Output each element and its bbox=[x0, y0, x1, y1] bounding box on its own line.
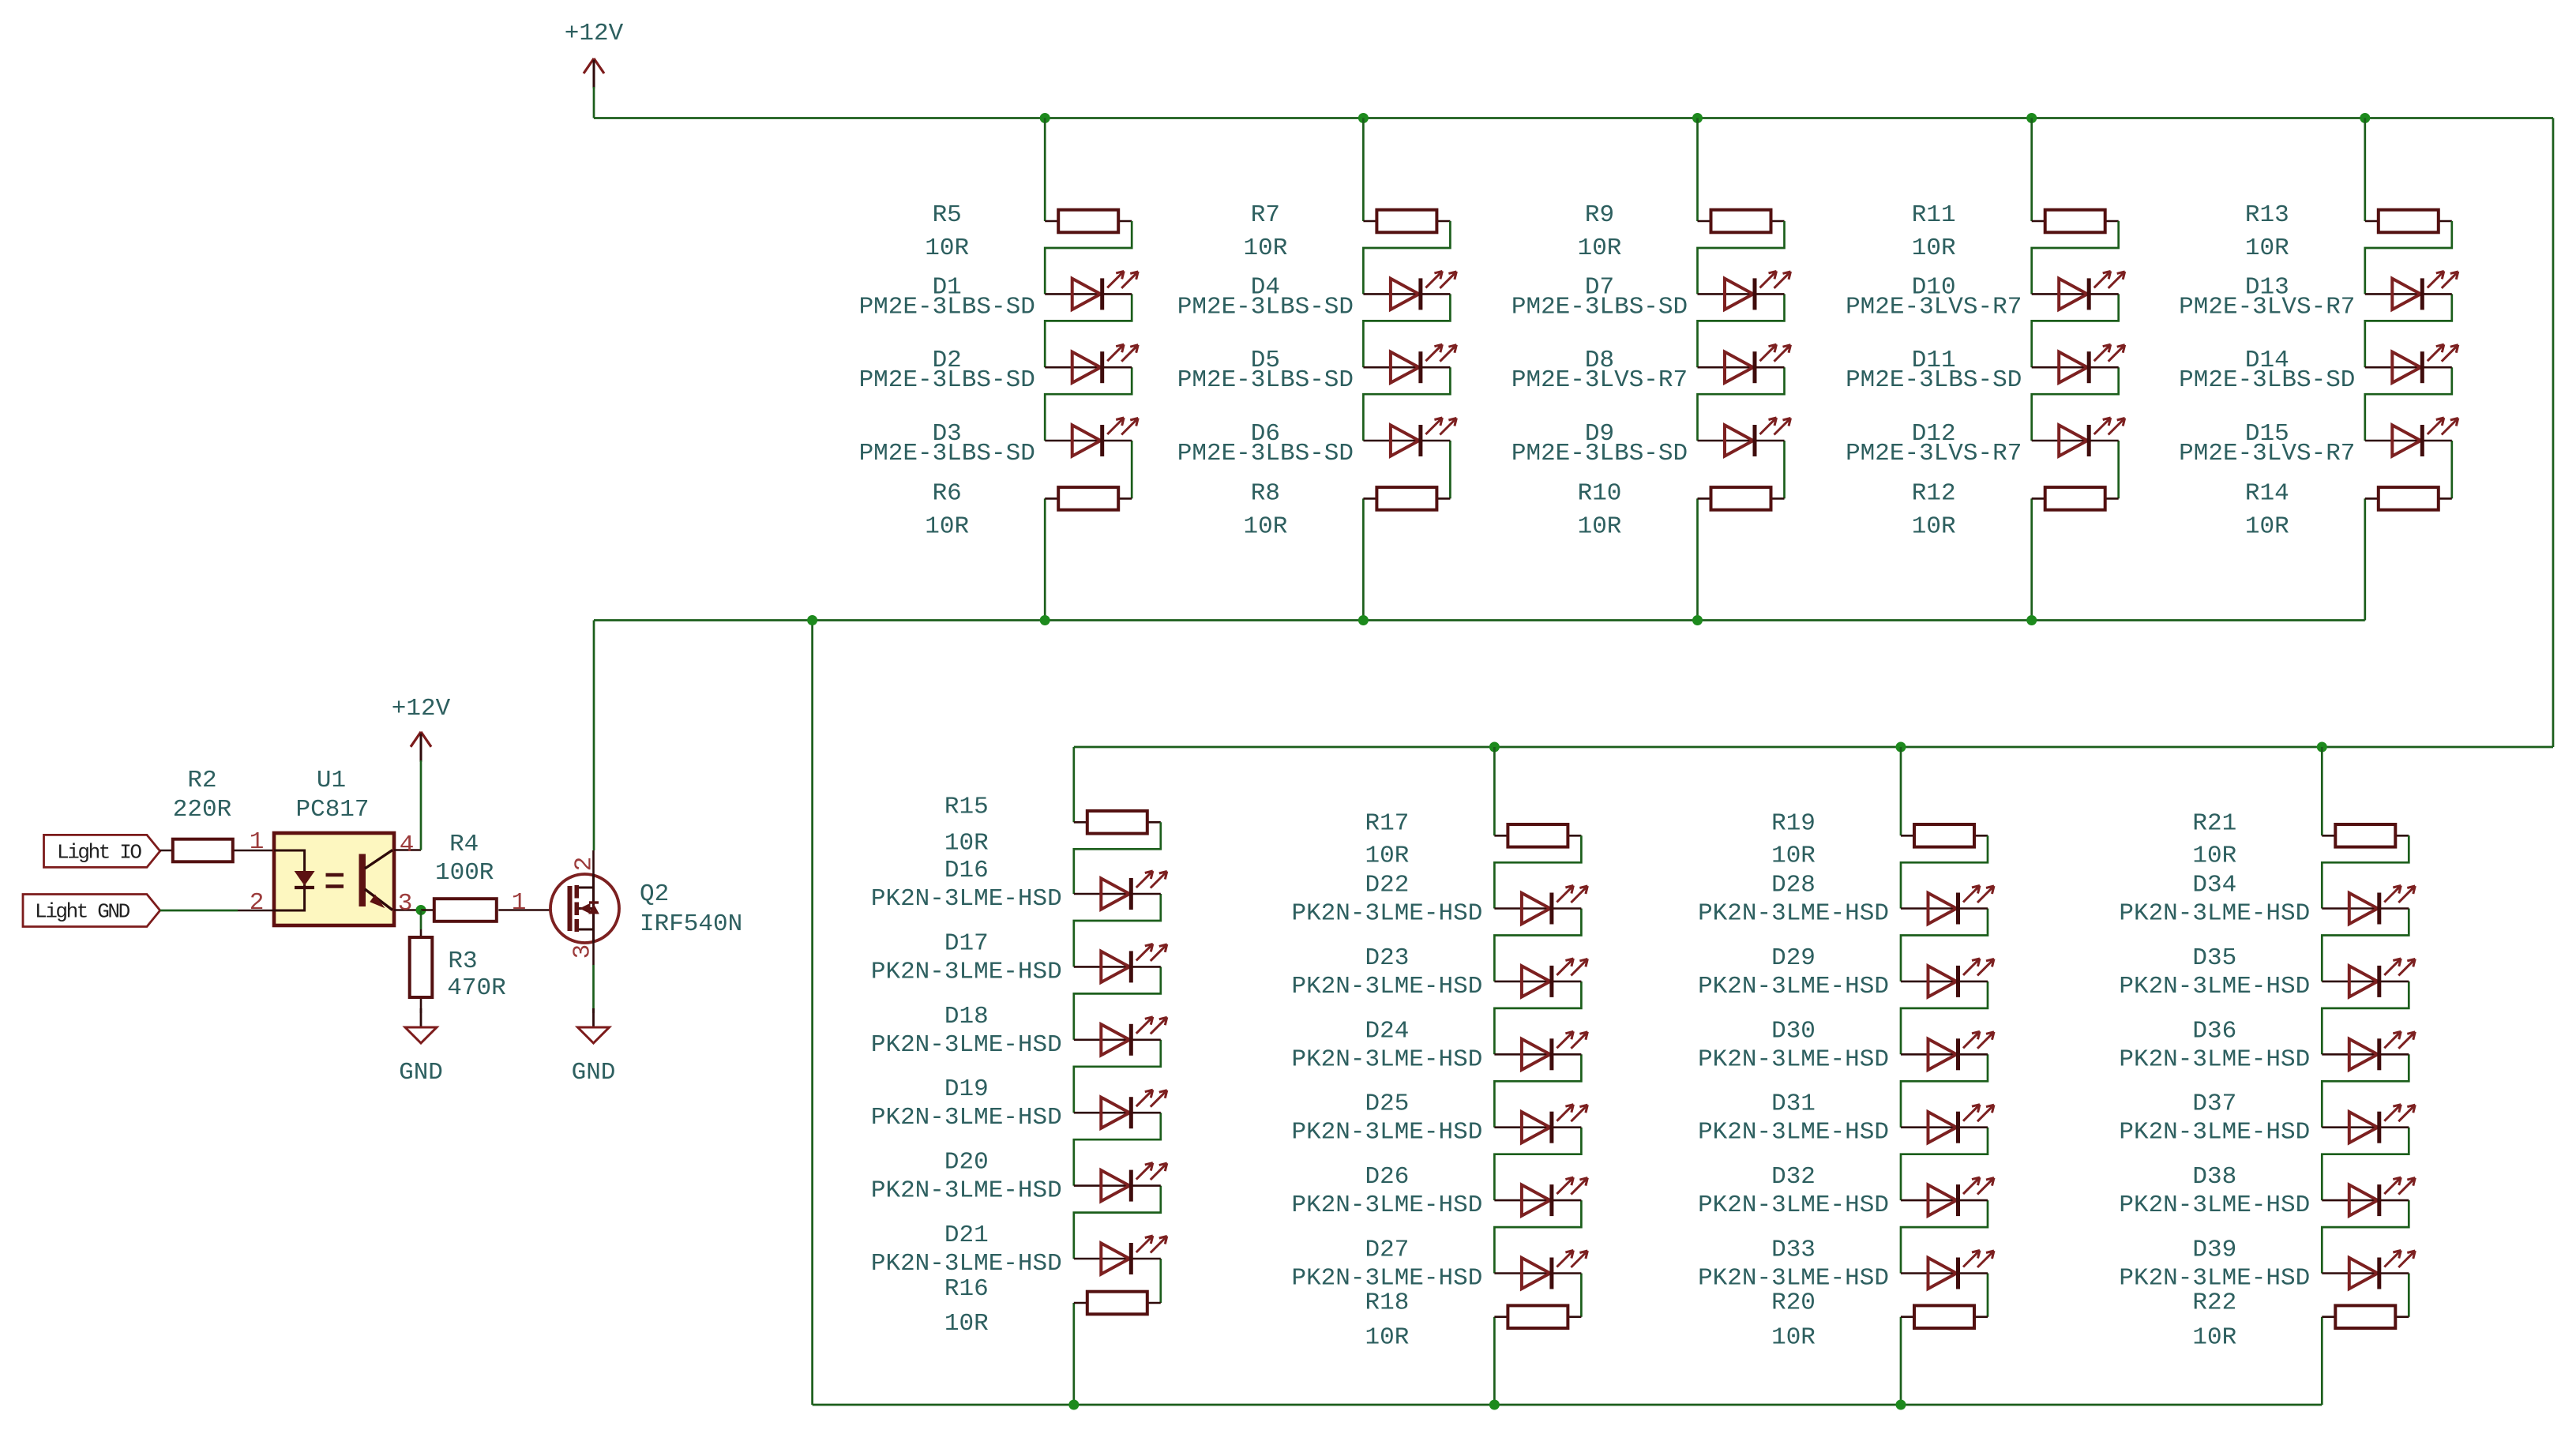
resistor R13 bbox=[2245, 201, 2452, 262]
junction bottom bus column 2 bbox=[1489, 1400, 1500, 1410]
svg-text:PK2N-3LME-HSD: PK2N-3LME-HSD bbox=[2119, 1119, 2310, 1147]
svg-text:PM2E-3LBS-SD: PM2E-3LBS-SD bbox=[1177, 440, 1354, 467]
LED D31 bbox=[1698, 1090, 1994, 1147]
resistor R2 bbox=[160, 767, 274, 861]
wire column 1 feed bbox=[1044, 118, 1046, 222]
svg-text:PK2N-3LME-HSD: PK2N-3LME-HSD bbox=[1291, 1265, 1482, 1293]
svg-text:PK2N-3LME-HSD: PK2N-3LME-HSD bbox=[871, 1250, 1062, 1278]
svg-text:R5: R5 bbox=[933, 201, 962, 229]
resistor R7 bbox=[1243, 201, 1450, 262]
svg-text:PK2N-3LME-HSD: PK2N-3LME-HSD bbox=[871, 1104, 1062, 1132]
junction bottom-section bus column 3 bbox=[1896, 742, 1906, 753]
svg-text:10R: 10R bbox=[2245, 512, 2289, 540]
svg-text:PM2E-3LBS-SD: PM2E-3LBS-SD bbox=[859, 293, 1035, 321]
LED D5 bbox=[1177, 344, 1457, 394]
LED D14 bbox=[2179, 344, 2458, 394]
svg-text:100R: 100R bbox=[435, 859, 494, 887]
svg-text:PM2E-3LVS-R7: PM2E-3LVS-R7 bbox=[1846, 293, 2022, 321]
svg-text:PC817: PC817 bbox=[295, 796, 369, 824]
wire drain vertical to Q2 bbox=[593, 621, 595, 851]
svg-text:Light GND: Light GND bbox=[35, 900, 130, 924]
svg-text:PK2N-3LME-HSD: PK2N-3LME-HSD bbox=[2119, 900, 2310, 928]
wire column 3 feed bbox=[1696, 118, 1699, 222]
resistor R14 bbox=[2245, 479, 2452, 540]
LED D30 bbox=[1698, 1017, 1994, 1073]
svg-text:PK2N-3LME-HSD: PK2N-3LME-HSD bbox=[1698, 1119, 1889, 1147]
LED D32 bbox=[1698, 1163, 1994, 1219]
svg-text:R17: R17 bbox=[1365, 809, 1409, 837]
resistor R8 bbox=[1243, 479, 1450, 540]
svg-text:PK2N-3LME-HSD: PK2N-3LME-HSD bbox=[1698, 1265, 1889, 1293]
LED D38 bbox=[2119, 1163, 2415, 1219]
LED D17 bbox=[871, 929, 1167, 985]
svg-text:R6: R6 bbox=[933, 479, 962, 507]
svg-text:D18: D18 bbox=[944, 1003, 989, 1030]
LED D25 bbox=[1291, 1090, 1587, 1147]
svg-text:D38: D38 bbox=[2192, 1163, 2236, 1191]
svg-text:10R: 10R bbox=[925, 512, 969, 540]
svg-text:10R: 10R bbox=[1578, 512, 1622, 540]
svg-text:PK2N-3LME-HSD: PK2N-3LME-HSD bbox=[1291, 1192, 1482, 1219]
svg-text:D27: D27 bbox=[1365, 1237, 1409, 1264]
junction top bus column 3 bbox=[1692, 113, 1703, 123]
junction mid bus column 3 bbox=[1692, 615, 1703, 625]
LED D1 bbox=[859, 271, 1139, 321]
LED D21 bbox=[871, 1222, 1167, 1278]
svg-text:R11: R11 bbox=[1912, 201, 1956, 229]
LED D24 bbox=[1291, 1017, 1587, 1073]
svg-text:D29: D29 bbox=[1771, 944, 1816, 972]
svg-text:D23: D23 bbox=[1365, 944, 1409, 972]
LED D26 bbox=[1291, 1163, 1587, 1219]
svg-text:PM2E-3LBS-SD: PM2E-3LBS-SD bbox=[1846, 366, 2022, 394]
svg-text:PK2N-3LME-HSD: PK2N-3LME-HSD bbox=[871, 1031, 1062, 1059]
LED D28 bbox=[1698, 872, 1994, 928]
svg-text:470R: 470R bbox=[447, 974, 505, 1002]
resistor R6 bbox=[925, 479, 1132, 540]
wire bottom column 4 ladder bbox=[2322, 835, 2409, 1405]
junction top bus column 5 bbox=[2360, 113, 2370, 123]
wire bottom return bus bbox=[813, 1404, 2323, 1406]
svg-text:PK2N-3LME-HSD: PK2N-3LME-HSD bbox=[1291, 1119, 1482, 1147]
svg-text:R16: R16 bbox=[944, 1275, 989, 1303]
wire bottom column 1 feed bbox=[1072, 747, 1075, 822]
wire bottom-section +12V bus bbox=[1074, 746, 2553, 749]
svg-text:2: 2 bbox=[571, 857, 599, 872]
wire column 2 feed bbox=[1362, 118, 1365, 222]
svg-text:R20: R20 bbox=[1771, 1289, 1816, 1317]
junction mid bus column 1 bbox=[1040, 615, 1050, 625]
svg-text:GND: GND bbox=[572, 1059, 616, 1087]
resistor R9 bbox=[1578, 201, 1785, 262]
svg-text:2: 2 bbox=[250, 889, 265, 917]
resistor R10 bbox=[1578, 479, 1785, 540]
svg-text:10R: 10R bbox=[944, 829, 989, 857]
svg-text:R9: R9 bbox=[1585, 201, 1614, 229]
svg-text:10R: 10R bbox=[1365, 1324, 1409, 1352]
wire bottom column 1 ladder bbox=[1074, 822, 1161, 1405]
LED D29 bbox=[1698, 944, 1994, 1000]
svg-text:R14: R14 bbox=[2245, 479, 2289, 507]
svg-text:R7: R7 bbox=[1251, 201, 1280, 229]
resistor R4 bbox=[421, 831, 551, 921]
svg-text:PK2N-3LME-HSD: PK2N-3LME-HSD bbox=[1698, 900, 1889, 928]
svg-text:D39: D39 bbox=[2192, 1237, 2236, 1264]
svg-text:1: 1 bbox=[512, 889, 527, 917]
svg-text:PK2N-3LME-HSD: PK2N-3LME-HSD bbox=[2119, 1045, 2310, 1073]
svg-text:D34: D34 bbox=[2192, 872, 2236, 899]
svg-text:D35: D35 bbox=[2192, 944, 2236, 972]
svg-text:PK2N-3LME-HSD: PK2N-3LME-HSD bbox=[1291, 900, 1482, 928]
svg-text:PM2E-3LBS-SD: PM2E-3LBS-SD bbox=[859, 440, 1035, 467]
wire right-side +12V vertical bbox=[2552, 118, 2555, 748]
junction bottom bus column 1 bbox=[1068, 1400, 1079, 1410]
wire column 4 feed bbox=[2030, 118, 2033, 222]
svg-text:PM2E-3LVS-R7: PM2E-3LVS-R7 bbox=[2179, 293, 2355, 321]
resistor R22 bbox=[2192, 1289, 2409, 1352]
svg-text:PM2E-3LBS-SD: PM2E-3LBS-SD bbox=[1177, 293, 1354, 321]
LED D23 bbox=[1291, 944, 1587, 1000]
svg-text:Q2: Q2 bbox=[640, 880, 669, 908]
resistor R5 bbox=[925, 201, 1132, 262]
svg-text:PK2N-3LME-HSD: PK2N-3LME-HSD bbox=[871, 958, 1062, 985]
svg-text:R21: R21 bbox=[2192, 809, 2236, 837]
power +12V at U1 pin 4 bbox=[392, 695, 451, 762]
junction top bus column 4 bbox=[2026, 113, 2037, 123]
resistor R16 bbox=[944, 1275, 1161, 1338]
LED D33 bbox=[1698, 1237, 1994, 1293]
resistor R11 bbox=[1912, 201, 2119, 262]
LED D15 bbox=[2179, 418, 2458, 467]
wire +12V top bus bbox=[594, 117, 2553, 119]
LED D19 bbox=[871, 1075, 1167, 1132]
wire bottom column 2 feed bbox=[1493, 747, 1496, 835]
LED D18 bbox=[871, 1003, 1167, 1059]
svg-text:R18: R18 bbox=[1365, 1289, 1409, 1317]
svg-text:+12V: +12V bbox=[565, 20, 624, 47]
LED D27 bbox=[1291, 1237, 1587, 1293]
svg-text:PM2E-3LVS-R7: PM2E-3LVS-R7 bbox=[1511, 366, 1688, 394]
junction U1 pin3 / R4 / R3 node bbox=[416, 905, 426, 915]
svg-text:10R: 10R bbox=[944, 1310, 989, 1338]
LED D12 bbox=[1846, 418, 2125, 467]
LED D10 bbox=[1846, 271, 2125, 321]
svg-text:PM2E-3LBS-SD: PM2E-3LBS-SD bbox=[1177, 366, 1354, 394]
junction mid bus bottom-section feed bbox=[807, 615, 817, 625]
wire bottom column 3 feed bbox=[1900, 747, 1902, 835]
junction bottom-section bus column 2 bbox=[1489, 742, 1500, 753]
svg-text:10R: 10R bbox=[1243, 235, 1287, 262]
svg-text:3: 3 bbox=[398, 890, 413, 918]
LED D6 bbox=[1177, 418, 1457, 467]
svg-text:4: 4 bbox=[400, 831, 415, 859]
wire column 4 ladder bbox=[2032, 221, 2119, 621]
svg-text:D26: D26 bbox=[1365, 1163, 1409, 1191]
svg-text:10R: 10R bbox=[2192, 842, 2236, 869]
resistor R19 bbox=[1771, 809, 1988, 869]
junction top bus column 2 bbox=[1358, 113, 1369, 123]
resistor R17 bbox=[1365, 809, 1581, 869]
svg-text:D16: D16 bbox=[944, 857, 989, 884]
LED D37 bbox=[2119, 1090, 2415, 1147]
ground GND under Q2 bbox=[572, 1008, 616, 1087]
svg-text:10R: 10R bbox=[1912, 235, 1956, 262]
svg-text:220R: 220R bbox=[173, 796, 231, 824]
resistor R21 bbox=[2192, 809, 2409, 869]
svg-text:PM2E-3LVS-R7: PM2E-3LVS-R7 bbox=[1846, 440, 2022, 467]
junction mid bus column 4 bbox=[2026, 615, 2037, 625]
wire column 5 feed bbox=[2364, 118, 2366, 222]
wire bottom column 4 feed bbox=[2321, 747, 2323, 835]
svg-text:PK2N-3LME-HSD: PK2N-3LME-HSD bbox=[871, 1177, 1062, 1205]
wire Light GND to U1 pin 2 bbox=[160, 910, 238, 912]
svg-text:PM2E-3LBS-SD: PM2E-3LBS-SD bbox=[1511, 440, 1688, 467]
junction bottom-section bus column 4 bbox=[2317, 742, 2327, 753]
svg-text:PK2N-3LME-HSD: PK2N-3LME-HSD bbox=[1698, 1045, 1889, 1073]
svg-text:D36: D36 bbox=[2192, 1017, 2236, 1045]
LED D2 bbox=[859, 344, 1139, 394]
optocoupler U1 PC817 bbox=[238, 767, 421, 925]
LED D39 bbox=[2119, 1237, 2415, 1293]
LED D16 bbox=[871, 857, 1167, 913]
svg-text:IRF540N: IRF540N bbox=[640, 910, 742, 938]
svg-text:D31: D31 bbox=[1771, 1090, 1816, 1118]
LED D9 bbox=[1511, 418, 1791, 467]
svg-text:1: 1 bbox=[250, 828, 265, 856]
svg-text:GND: GND bbox=[399, 1059, 443, 1087]
svg-text:10R: 10R bbox=[1771, 842, 1816, 869]
svg-text:10R: 10R bbox=[1912, 512, 1956, 540]
wire column 2 ladder bbox=[1363, 221, 1450, 621]
svg-text:R22: R22 bbox=[2192, 1289, 2236, 1317]
svg-text:R8: R8 bbox=[1251, 479, 1280, 507]
LED D4 bbox=[1177, 271, 1457, 321]
svg-text:PK2N-3LME-HSD: PK2N-3LME-HSD bbox=[1291, 973, 1482, 1000]
svg-text:D30: D30 bbox=[1771, 1017, 1816, 1045]
wire Q2 source to GND bbox=[592, 965, 595, 1013]
svg-text:R12: R12 bbox=[1912, 479, 1956, 507]
svg-text:PK2N-3LME-HSD: PK2N-3LME-HSD bbox=[1291, 1045, 1482, 1073]
wire column 5 ladder bbox=[2365, 221, 2452, 621]
svg-text:PK2N-3LME-HSD: PK2N-3LME-HSD bbox=[1698, 973, 1889, 1000]
resistor R3 bbox=[410, 910, 506, 1014]
svg-text:D24: D24 bbox=[1365, 1017, 1409, 1045]
junction bottom bus column 3 bbox=[1896, 1400, 1906, 1410]
svg-text:PM2E-3LBS-SD: PM2E-3LBS-SD bbox=[2179, 366, 2355, 394]
Q2 body diode bbox=[589, 905, 599, 914]
junction mid bus column 2 bbox=[1358, 615, 1369, 625]
resistor R18 bbox=[1365, 1289, 1581, 1352]
ground GND under R3 bbox=[399, 1008, 443, 1087]
svg-text:D28: D28 bbox=[1771, 872, 1816, 899]
svg-text:Light IO: Light IO bbox=[57, 841, 141, 865]
svg-text:PM2E-3LBS-SD: PM2E-3LBS-SD bbox=[1511, 293, 1688, 321]
svg-text:R15: R15 bbox=[944, 793, 989, 820]
LED D7 bbox=[1511, 271, 1791, 321]
svg-text:D22: D22 bbox=[1365, 872, 1409, 899]
svg-text:D21: D21 bbox=[944, 1222, 989, 1249]
LED D36 bbox=[2119, 1017, 2415, 1073]
svg-text:R10: R10 bbox=[1578, 479, 1622, 507]
svg-text:D33: D33 bbox=[1771, 1237, 1816, 1264]
svg-text:10R: 10R bbox=[925, 235, 969, 262]
wire column 3 ladder bbox=[1698, 221, 1785, 621]
svg-text:3: 3 bbox=[569, 944, 597, 959]
svg-text:PK2N-3LME-HSD: PK2N-3LME-HSD bbox=[2119, 1192, 2310, 1219]
svg-text:R2: R2 bbox=[187, 767, 216, 794]
LED D20 bbox=[871, 1149, 1167, 1205]
svg-text:U1: U1 bbox=[317, 767, 346, 794]
global label Light IO bbox=[44, 835, 160, 867]
LED D3 bbox=[859, 418, 1139, 467]
svg-text:10R: 10R bbox=[1578, 235, 1622, 262]
svg-text:PK2N-3LME-HSD: PK2N-3LME-HSD bbox=[871, 885, 1062, 913]
svg-text:R19: R19 bbox=[1771, 809, 1816, 837]
svg-text:10R: 10R bbox=[1365, 842, 1409, 869]
svg-text:R3: R3 bbox=[448, 948, 477, 975]
LED D22 bbox=[1291, 872, 1587, 928]
resistor R15 bbox=[944, 793, 1161, 857]
svg-text:10R: 10R bbox=[1771, 1324, 1816, 1352]
LED D8 bbox=[1511, 344, 1791, 394]
LED D11 bbox=[1846, 344, 2125, 394]
svg-text:10R: 10R bbox=[2245, 235, 2289, 262]
global label Light GND bbox=[23, 895, 160, 927]
wire mid bus (MOSFET drain net) bbox=[594, 619, 2365, 621]
LED D35 bbox=[2119, 944, 2415, 1000]
LED D13 bbox=[2179, 271, 2458, 321]
svg-text:+12V: +12V bbox=[392, 695, 451, 723]
wire bottom-section left vertical bbox=[811, 621, 813, 1406]
wire U1 pin 4 to +12V bbox=[420, 760, 422, 850]
wire bottom column 3 ladder bbox=[1901, 835, 1988, 1405]
wire bottom column 2 ladder bbox=[1494, 835, 1581, 1405]
junction top bus column 1 bbox=[1040, 113, 1050, 123]
junction mid bus column 5 bbox=[0, 0, 1, 1]
svg-text:D37: D37 bbox=[2192, 1090, 2236, 1118]
svg-text:PK2N-3LME-HSD: PK2N-3LME-HSD bbox=[2119, 973, 2310, 1000]
transistor Q2 IRF540N bbox=[512, 850, 743, 965]
svg-text:R4: R4 bbox=[449, 831, 479, 858]
wire +12V vertical to top bus bbox=[593, 87, 595, 118]
svg-text:D19: D19 bbox=[944, 1075, 989, 1103]
svg-text:D20: D20 bbox=[944, 1149, 989, 1177]
svg-text:D25: D25 bbox=[1365, 1090, 1409, 1118]
svg-text:PM2E-3LBS-SD: PM2E-3LBS-SD bbox=[859, 366, 1035, 394]
svg-text:PK2N-3LME-HSD: PK2N-3LME-HSD bbox=[1698, 1192, 1889, 1219]
LED D34 bbox=[2119, 872, 2415, 928]
power +12V top bbox=[565, 20, 624, 88]
resistor R20 bbox=[1771, 1289, 1988, 1352]
svg-text:PK2N-3LME-HSD: PK2N-3LME-HSD bbox=[2119, 1265, 2310, 1293]
svg-text:PM2E-3LVS-R7: PM2E-3LVS-R7 bbox=[2179, 440, 2355, 467]
svg-text:10R: 10R bbox=[2192, 1324, 2236, 1352]
wire column 1 ladder bbox=[1045, 221, 1132, 621]
svg-text:R13: R13 bbox=[2245, 201, 2289, 229]
svg-text:D32: D32 bbox=[1771, 1163, 1816, 1191]
resistor R12 bbox=[1912, 479, 2119, 540]
svg-text:10R: 10R bbox=[1243, 512, 1287, 540]
svg-text:D17: D17 bbox=[944, 929, 989, 957]
